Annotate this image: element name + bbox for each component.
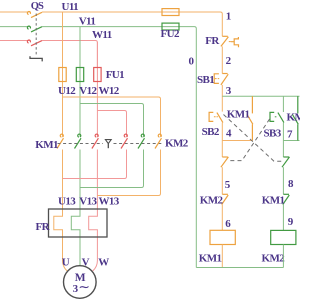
- contact KM2 interlock NC: [222, 194, 229, 204]
- svg-text:KM1: KM1: [262, 195, 285, 207]
- svg-text:U11: U11: [62, 1, 79, 13]
- mechanical link SB3 to NC dashed: [228, 119, 270, 161]
- wire V11: [42, 27, 196, 268]
- wire node 2 segment: [221, 46, 223, 73]
- fuse FU2 lower: [162, 23, 179, 30]
- wire node 9 segment: [282, 205, 284, 231]
- wire W13 through FR heater to motor: [89, 150, 98, 272]
- svg-text:FU1: FU1: [106, 69, 124, 81]
- mechanical link SB2 to NC dashed: [224, 115, 283, 162]
- contact SB3 linked NC (left branch): [221, 157, 229, 167]
- wire V12 branch to KM2: [80, 104, 144, 137]
- svg-text:V12: V12: [79, 85, 97, 97]
- svg-text:5: 5: [225, 179, 231, 191]
- svg-text:U13: U13: [58, 195, 76, 207]
- svg-text:2: 2: [226, 55, 232, 67]
- wire phase L1: [0, 11, 30, 13]
- wire V13 through FR heater to motor: [71, 150, 80, 266]
- pushbutton SB3 start-reverse: [270, 112, 284, 122]
- svg-text:KM2: KM2: [200, 195, 224, 207]
- wire right branch upper: [282, 96, 284, 112]
- svg-text:7: 7: [287, 128, 293, 140]
- svg-text:8: 8: [288, 178, 294, 190]
- wire node 4 segment: [221, 123, 223, 157]
- wire KM2 output crossover to W13: [97, 150, 160, 196]
- coil KM2: [271, 230, 296, 244]
- svg-text:FU2: FU2: [161, 28, 180, 40]
- wire KM2 output crossover to U13: [63, 150, 127, 179]
- svg-text:3: 3: [226, 85, 232, 97]
- pushbutton SB1 stop: [214, 74, 228, 85]
- wire phase L2: [0, 26, 30, 28]
- wire U13 through FR heater to motor: [54, 150, 67, 272]
- fuse FU1 pole U: [59, 68, 66, 82]
- svg-text:9: 9: [288, 216, 294, 228]
- svg-text:W12: W12: [99, 85, 120, 97]
- contactor KM2 main contact pole 1: [121, 134, 128, 148]
- thermal relay FR heater box: [49, 209, 108, 237]
- wire node 7 link: [283, 140, 299, 142]
- mechanical linkage dashes left: [58, 143, 104, 145]
- svg-text:0: 0: [189, 56, 195, 68]
- svg-text:KM2: KM2: [262, 252, 286, 264]
- wire node 8 segment: [282, 167, 284, 194]
- svg-text:4: 4: [226, 128, 232, 140]
- fuse FU2 upper: [162, 9, 179, 16]
- svg-text:KM1: KM1: [227, 109, 250, 121]
- wire W12 branch to KM2: [97, 111, 126, 137]
- motor M: [64, 266, 97, 299]
- wire U12 branch to KM2: [63, 97, 161, 137]
- wire node 4 link: [222, 140, 252, 142]
- wire KM1 coil to rail: [221, 245, 223, 268]
- wire KM2 coil to rail: [282, 245, 284, 268]
- coil KM1: [210, 230, 235, 244]
- svg-text:SB2: SB2: [202, 126, 220, 138]
- contact KM2 auxiliary NO: [292, 96, 298, 140]
- svg-text:FR: FR: [36, 221, 51, 233]
- svg-text:1: 1: [226, 10, 231, 22]
- svg-text:∼: ∼: [78, 280, 90, 295]
- contactor KM1 main contact pole 1: [57, 134, 64, 148]
- svg-text:U: U: [62, 257, 70, 269]
- wire W12 vertical: [96, 42, 98, 137]
- svg-text:V: V: [82, 257, 90, 269]
- fuse FU1 pole V: [76, 68, 83, 82]
- wire phase L3: [0, 40, 30, 42]
- svg-text:U12: U12: [58, 85, 76, 97]
- wire U11: [42, 12, 222, 36]
- contact KM1 auxiliary NO: [247, 96, 253, 140]
- svg-text:V11: V11: [79, 16, 96, 28]
- linkage actuator symbol: [105, 140, 111, 149]
- svg-text:KM2: KM2: [165, 137, 189, 149]
- contactor KM1 main contact pole 2: [75, 134, 82, 148]
- contactor KM2 main contact pole 2: [138, 134, 145, 148]
- mechanical linkage dashes right: [114, 143, 163, 145]
- svg-text:SB3: SB3: [264, 128, 282, 140]
- svg-text:6: 6: [225, 218, 231, 230]
- fuse FU1 pole W: [94, 68, 101, 82]
- wire W11: [42, 41, 97, 68]
- contactor KM1 main contact pole 3: [92, 134, 99, 148]
- svg-text:QS: QS: [31, 1, 44, 12]
- wire U12 vertical: [62, 12, 64, 137]
- svg-text:SB1: SB1: [197, 74, 214, 86]
- svg-text:W11: W11: [92, 29, 112, 41]
- svg-text:W: W: [98, 257, 109, 269]
- wire node 7 segment: [282, 123, 284, 157]
- wire node 5 segment: [221, 167, 223, 194]
- contact KM1 interlock NC: [283, 194, 290, 204]
- svg-text:V13: V13: [79, 195, 97, 207]
- wire node 6 segment: [221, 205, 223, 231]
- contactor KM2 main contact pole 3: [155, 134, 162, 148]
- pushbutton SB2 start-forward: [209, 112, 223, 122]
- svg-text:KM2: KM2: [287, 112, 301, 124]
- contact SB2 linked NC (right branch): [282, 157, 290, 167]
- wire node 3 segment: [221, 85, 223, 112]
- thermal relay FR contact: [221, 36, 239, 47]
- svg-text:KM1: KM1: [199, 252, 222, 264]
- wire node 3 rail: [222, 95, 299, 97]
- svg-text:KM1: KM1: [35, 139, 58, 151]
- svg-text:FR: FR: [205, 35, 220, 47]
- disconnect switch QS: [27, 11, 42, 61]
- wire V12 vertical: [79, 27, 81, 137]
- wire KM2 output crossover to V13: [80, 150, 144, 188]
- wire bottom rail: [196, 267, 283, 269]
- svg-text:W13: W13: [99, 195, 120, 207]
